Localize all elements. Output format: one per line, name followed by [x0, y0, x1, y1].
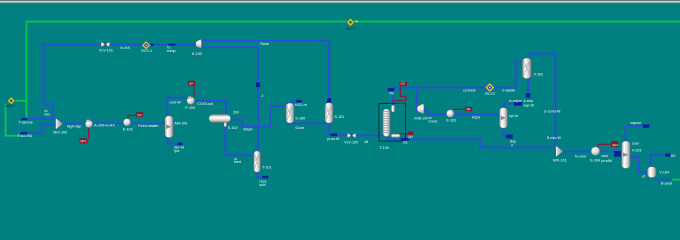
svg-text:vap-W: vap-W: [523, 104, 534, 108]
svg-text:QE2: QE2: [612, 143, 618, 147]
svg-text:P-100: P-100: [185, 106, 195, 110]
svg-text:RCY-1: RCY-1: [141, 49, 152, 53]
svg-text:to-HX: to-HX: [121, 46, 131, 50]
svg-text:RCY2: RCY2: [485, 92, 495, 96]
svg-text:Guse: Guse: [295, 126, 304, 130]
svg-text:high-Vap: high-Vap: [67, 124, 82, 128]
svg-text:tpd: tpd: [174, 149, 179, 153]
svg-text:T-carene: T-carene: [18, 121, 33, 125]
svg-text:B-prod: B-prod: [661, 181, 672, 185]
svg-text:A-100-to-HX: A-100-to-HX: [94, 124, 115, 128]
svg-text:cool: cool: [601, 154, 608, 158]
svg-text:MIX-100: MIX-100: [53, 130, 67, 134]
svg-text:A-vapor: A-vapor: [509, 99, 523, 103]
svg-text:ADJ-2: ADJ-2: [5, 104, 15, 108]
svg-text:2W: 2W: [233, 111, 239, 115]
svg-text:AM-100: AM-100: [174, 122, 187, 126]
svg-text:V-103: V-103: [632, 149, 642, 153]
svg-text:cool-W: cool-W: [169, 101, 181, 105]
svg-text:E-103: E-103: [446, 119, 456, 123]
svg-text:H2px: H2px: [472, 116, 481, 120]
svg-text:VLV-101: VLV-101: [99, 48, 113, 52]
svg-text:co-treat: co-treat: [463, 88, 476, 92]
svg-text:T-sol-MU: T-sol-MU: [17, 134, 32, 138]
svg-text:to-cool: to-cool: [575, 154, 586, 158]
svg-text:T-101: T-101: [262, 166, 271, 170]
svg-text:VLV-100: VLV-100: [344, 141, 358, 145]
svg-text:feed: feed: [234, 160, 241, 164]
svg-text:T-100: T-100: [379, 146, 388, 150]
svg-text:QR: QR: [408, 135, 414, 139]
svg-text:S-100: S-100: [295, 117, 305, 121]
svg-text:E-100: E-100: [123, 127, 133, 131]
svg-text:V-102: V-102: [534, 73, 544, 77]
svg-text:QH: QH: [137, 113, 142, 117]
svg-text:Feed-heater: Feed-heater: [138, 124, 159, 128]
svg-text:QP: QP: [189, 82, 193, 86]
svg-text:S-cond-W: S-cond-W: [544, 110, 561, 114]
svg-text:B2: B2: [671, 154, 676, 158]
svg-text:Cond: Cond: [428, 120, 437, 124]
svg-text:COOl-out: COOl-out: [197, 102, 213, 106]
svg-text:Rese: Rese: [260, 42, 269, 46]
svg-text:QE: QE: [466, 107, 470, 111]
svg-text:solv: solv: [259, 183, 266, 187]
svg-text:comp: comp: [167, 49, 176, 53]
svg-text:Wash: Wash: [243, 128, 252, 132]
svg-text:S-101: S-101: [334, 115, 344, 119]
svg-text:E-104: E-104: [590, 158, 600, 162]
svg-text:2: 2: [511, 143, 513, 147]
svg-text:H2O-re: H2O-re: [295, 103, 307, 107]
svg-text:S-mix-W: S-mix-W: [547, 136, 562, 140]
svg-text:spl-in: spl-in: [509, 114, 518, 118]
svg-text:MIX-101: MIX-101: [553, 159, 567, 163]
svg-text:vapour: vapour: [630, 121, 642, 125]
svg-text:prod-W: prod-W: [327, 137, 340, 141]
svg-text:mix: mix: [44, 112, 50, 116]
svg-text:2: 2: [261, 94, 263, 98]
svg-text:YB: YB: [389, 92, 394, 96]
svg-text:QP1: QP1: [80, 139, 86, 143]
svg-text:cool: cool: [632, 141, 639, 145]
svg-text:b-waste: b-waste: [502, 89, 515, 93]
svg-text:48: 48: [364, 140, 368, 144]
svg-text:prodW: prodW: [601, 159, 612, 163]
svg-text:K-100: K-100: [192, 52, 202, 56]
svg-text:S-102: S-102: [228, 126, 238, 130]
svg-text:V-104: V-104: [659, 170, 669, 174]
svg-text:ADJ-1: ADJ-1: [346, 27, 356, 31]
svg-text:B1: B1: [403, 141, 408, 145]
svg-text:A-sep: A-sep: [523, 99, 533, 103]
svg-text:KRB-100: KRB-100: [414, 116, 428, 120]
